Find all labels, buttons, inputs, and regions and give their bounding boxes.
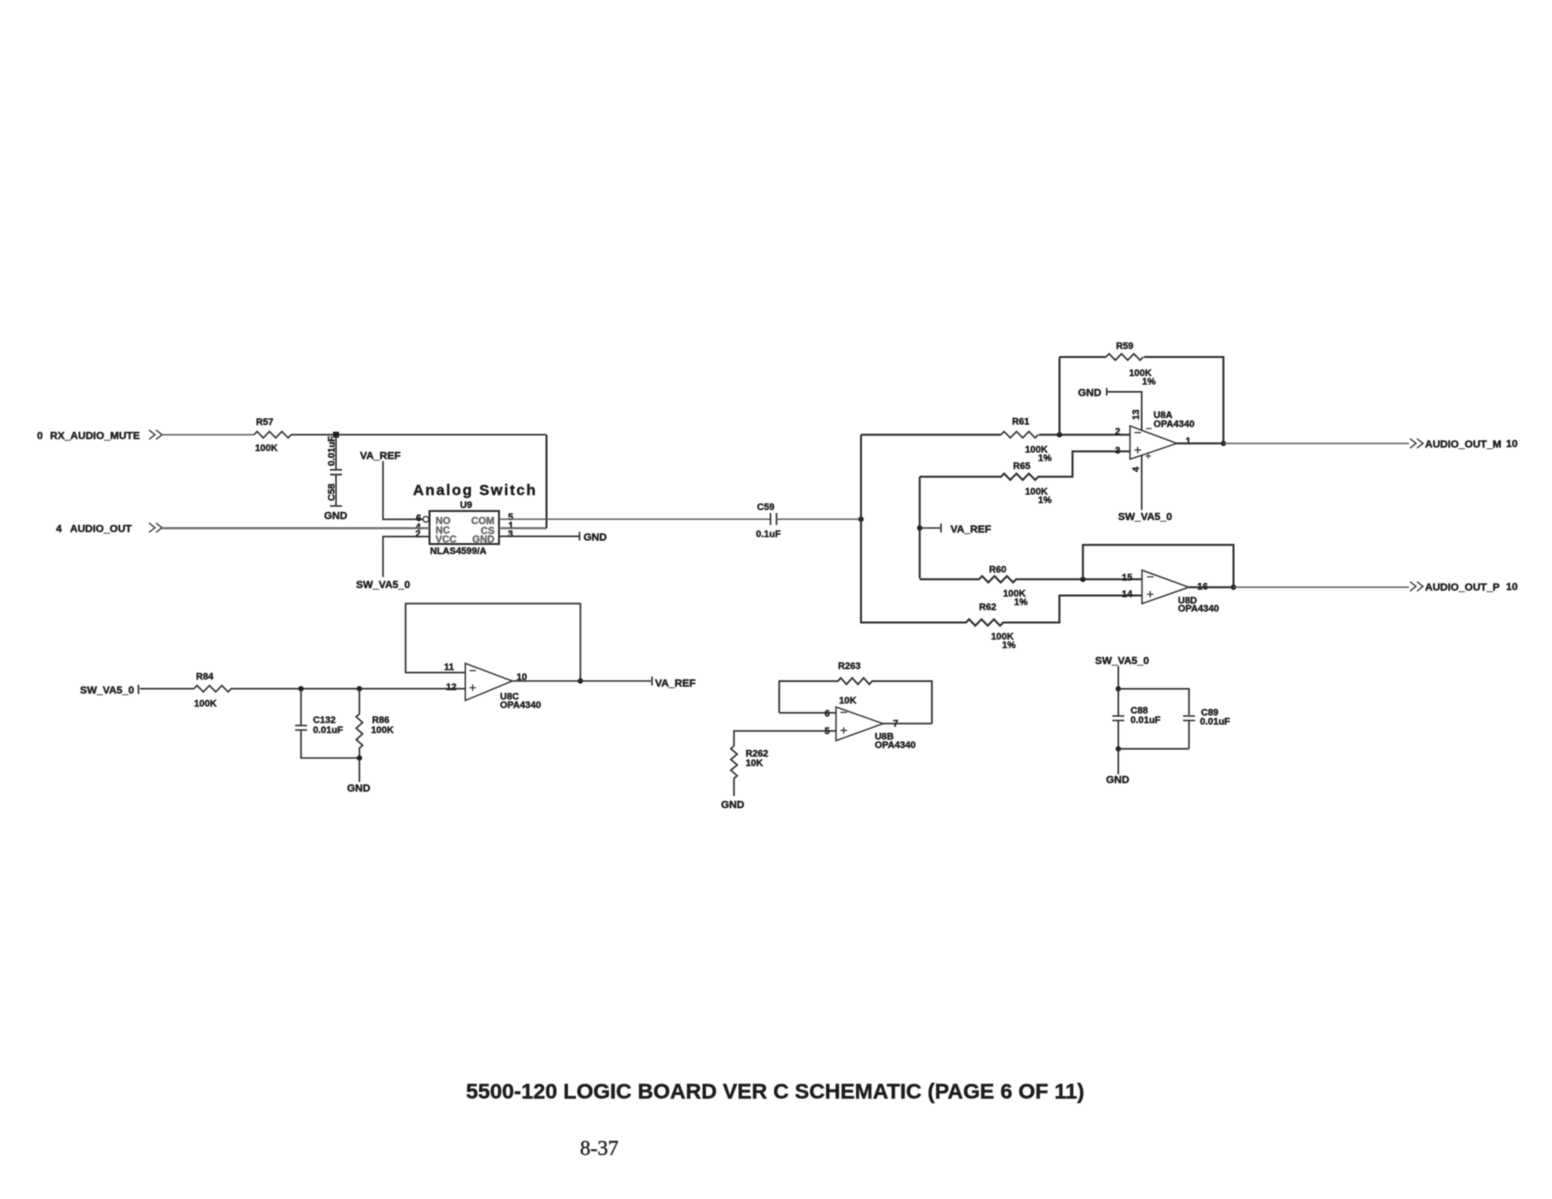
- power U8A pin4 SW_VA5_0: [1118, 456, 1172, 524]
- resistor R60: [920, 564, 1142, 608]
- wire pin5: [734, 731, 836, 746]
- resistor R57: [254, 417, 291, 454]
- svg-text:1%: 1%: [1038, 453, 1052, 464]
- resistor R59: [1106, 341, 1156, 388]
- wire U8A output: [1177, 442, 1224, 444]
- wire feedback right: [1144, 357, 1223, 443]
- svg-text:4: 4: [1131, 466, 1142, 472]
- svg-text:GND: GND: [721, 799, 745, 811]
- wire vertical from R57 to CS: [546, 435, 548, 529]
- svg-text:11: 11: [444, 662, 455, 673]
- node C59 junction: [858, 517, 863, 522]
- svg-text:0: 0: [37, 430, 43, 442]
- resistor R262: [731, 746, 769, 796]
- svg-text:1: 1: [1186, 436, 1192, 447]
- node R60 junction: [1080, 577, 1085, 582]
- svg-text:5500-120 LOGIC BOARD VER C SCH: 5500-120 LOGIC BOARD VER C SCHEMATIC (PA…: [466, 1079, 1084, 1104]
- svg-text:12: 12: [446, 682, 457, 693]
- wire to pin6: [779, 712, 836, 714]
- net AUDIO_OUT_M: [1410, 438, 1518, 451]
- svg-text:6: 6: [825, 709, 830, 720]
- capacitor C89: [1183, 708, 1230, 749]
- op-amp U8B: [825, 707, 916, 751]
- svg-text:C59: C59: [757, 502, 774, 513]
- wire U8B output: [883, 723, 932, 725]
- svg-text:AUDIO_OUT: AUDIO_OUT: [70, 523, 132, 535]
- svg-text:Analog Switch: Analog Switch: [413, 482, 537, 499]
- node junction C132: [298, 686, 303, 691]
- net AUDIO_OUT: [56, 523, 162, 535]
- svg-text:R61: R61: [1012, 417, 1030, 428]
- wire U8D output: [1189, 586, 1234, 588]
- wire bus vertical: [860, 435, 862, 622]
- wire: [291, 434, 546, 436]
- wire pin3: [499, 535, 580, 537]
- op-amp U8A: [1115, 410, 1195, 459]
- resistor R84: [194, 672, 231, 710]
- wire: [162, 434, 254, 436]
- svg-text:GND: GND: [1106, 774, 1130, 786]
- power SW_VA5_0 (caps): [1095, 655, 1149, 689]
- svg-text:100K: 100K: [194, 699, 217, 710]
- node junction R86: [357, 686, 362, 691]
- wire top: [1118, 689, 1189, 715]
- svg-text:R263: R263: [838, 661, 861, 672]
- wire to op-amp: [231, 688, 465, 690]
- svg-text:0.01uF: 0.01uF: [1131, 715, 1161, 726]
- svg-text:10: 10: [1506, 581, 1518, 593]
- svg-text:2: 2: [415, 529, 420, 540]
- wire feedback top: [1060, 356, 1107, 358]
- svg-text:SW_VA5_0: SW_VA5_0: [1118, 511, 1172, 523]
- svg-text:0.01uF: 0.01uF: [1200, 717, 1230, 728]
- svg-text:14: 14: [1122, 589, 1133, 600]
- svg-text:4: 4: [56, 523, 62, 535]
- node U8D output junction: [1231, 585, 1236, 590]
- svg-text:1%: 1%: [1142, 377, 1156, 388]
- ground: [1106, 749, 1130, 786]
- svg-text:SW_VA5_0: SW_VA5_0: [356, 579, 410, 591]
- svg-text:10K: 10K: [746, 758, 764, 769]
- wire: [140, 688, 194, 690]
- wire pin4: [162, 527, 430, 529]
- svg-text:SW_VA5_0: SW_VA5_0: [1095, 655, 1149, 667]
- resistor R86: [356, 689, 394, 758]
- node junction: [333, 432, 339, 438]
- svg-text:AUDIO_OUT_M: AUDIO_OUT_M: [1425, 439, 1502, 451]
- svg-text:0.1uF: 0.1uF: [756, 529, 781, 540]
- resistor R62: [861, 596, 1142, 652]
- op-amp U8C: [444, 662, 541, 711]
- resistor R263: [779, 661, 932, 724]
- svg-text:R65: R65: [1013, 461, 1031, 472]
- wire R61 feed: [861, 434, 1001, 436]
- node VA_REF: [917, 524, 992, 536]
- svg-text:8-37: 8-37: [580, 1136, 619, 1160]
- wire bottom: [1118, 748, 1189, 750]
- svg-text:RX_AUDIO_MUTE: RX_AUDIO_MUTE: [50, 430, 140, 442]
- node top junction: [1116, 686, 1121, 691]
- svg-text:OPA4340: OPA4340: [1178, 603, 1219, 614]
- svg-text:OPA4340: OPA4340: [1154, 419, 1195, 430]
- svg-text:GND: GND: [324, 510, 348, 522]
- wire C59 to bus: [777, 518, 862, 520]
- wire R61 to pin2: [1039, 434, 1130, 436]
- net AUDIO_OUT_P: [1410, 581, 1518, 594]
- ground: [721, 799, 745, 811]
- svg-text:R60: R60: [989, 564, 1006, 575]
- ground U8A pin13: [1078, 387, 1142, 430]
- net VA_REF out: [652, 677, 696, 690]
- svg-text:100K: 100K: [255, 443, 278, 454]
- node feedback junction: [1057, 432, 1062, 437]
- svg-text:3: 3: [1115, 446, 1120, 457]
- svg-text:0.01uF: 0.01uF: [313, 725, 343, 736]
- svg-text:C58: C58: [327, 484, 338, 501]
- svg-text:R59: R59: [1116, 341, 1133, 352]
- node bottom junction: [1116, 746, 1121, 751]
- svg-text:R62: R62: [979, 602, 996, 613]
- svg-text:SW_VA5_0: SW_VA5_0: [80, 685, 134, 697]
- svg-text:VA_REF: VA_REF: [951, 524, 992, 536]
- wire U8D feedback: [1083, 545, 1234, 587]
- capacitor C132: [295, 689, 359, 758]
- resistor R61: [1001, 417, 1052, 465]
- wire to AUDIO_OUT_M: [1223, 442, 1409, 444]
- svg-text:3: 3: [508, 529, 513, 540]
- analog switch U9: [413, 482, 537, 557]
- svg-text:100K: 100K: [371, 725, 394, 736]
- wire U8C output: [512, 680, 651, 682]
- svg-text:1%: 1%: [1002, 640, 1016, 651]
- capacitor C88: [1112, 689, 1160, 749]
- svg-text:NLAS4599/A: NLAS4599/A: [430, 546, 487, 557]
- svg-text:VA_REF: VA_REF: [655, 678, 696, 690]
- net RX_AUDIO_MUTE: [37, 430, 162, 442]
- svg-text:GND: GND: [347, 783, 371, 795]
- ground: [324, 506, 348, 522]
- capacitor C59: [756, 502, 781, 540]
- wire feedback left vertical: [1059, 357, 1061, 435]
- svg-text:10K: 10K: [839, 696, 857, 707]
- wire pin1 CS: [499, 527, 547, 529]
- svg-text:R84: R84: [196, 672, 214, 683]
- svg-text:OPA4340: OPA4340: [500, 700, 541, 711]
- ground: [347, 758, 371, 795]
- svg-text:R57: R57: [256, 417, 273, 428]
- svg-text:2: 2: [1115, 427, 1120, 438]
- wire VA_REF vertical: [919, 477, 921, 579]
- ground pin3: [580, 532, 608, 544]
- svg-text:GND: GND: [472, 535, 494, 546]
- svg-text:1%: 1%: [1014, 597, 1028, 608]
- svg-text:0.01uF: 0.01uF: [327, 436, 338, 466]
- wire pin5 COM: [499, 518, 770, 520]
- svg-text:VA_REF: VA_REF: [360, 450, 401, 462]
- power VA_REF: [360, 450, 423, 519]
- svg-text:GND: GND: [1078, 387, 1102, 399]
- svg-text:10: 10: [1506, 438, 1518, 450]
- svg-text:U9: U9: [460, 500, 472, 511]
- node U8C output junction: [578, 678, 583, 683]
- wire pin2 SW_VA5_0: [356, 537, 430, 591]
- wire to AUDIO_OUT_P: [1234, 586, 1410, 588]
- svg-text:OPA4340: OPA4340: [875, 740, 916, 751]
- node junction bottom: [357, 755, 362, 760]
- svg-text:AUDIO_OUT_P: AUDIO_OUT_P: [1425, 582, 1500, 594]
- svg-text:1%: 1%: [1038, 495, 1052, 506]
- resistor R65: [920, 451, 1130, 506]
- wire U8C feedback: [406, 604, 581, 681]
- node output junction: [1221, 441, 1226, 446]
- op-amp U8D: [1122, 570, 1219, 614]
- svg-text:13: 13: [1131, 409, 1142, 420]
- capacitor C58: [327, 435, 343, 506]
- svg-text:15: 15: [1122, 573, 1133, 584]
- svg-text:GND: GND: [584, 532, 608, 544]
- net SW_VA5_0 (left): [80, 685, 139, 697]
- svg-text:VCC: VCC: [436, 535, 457, 546]
